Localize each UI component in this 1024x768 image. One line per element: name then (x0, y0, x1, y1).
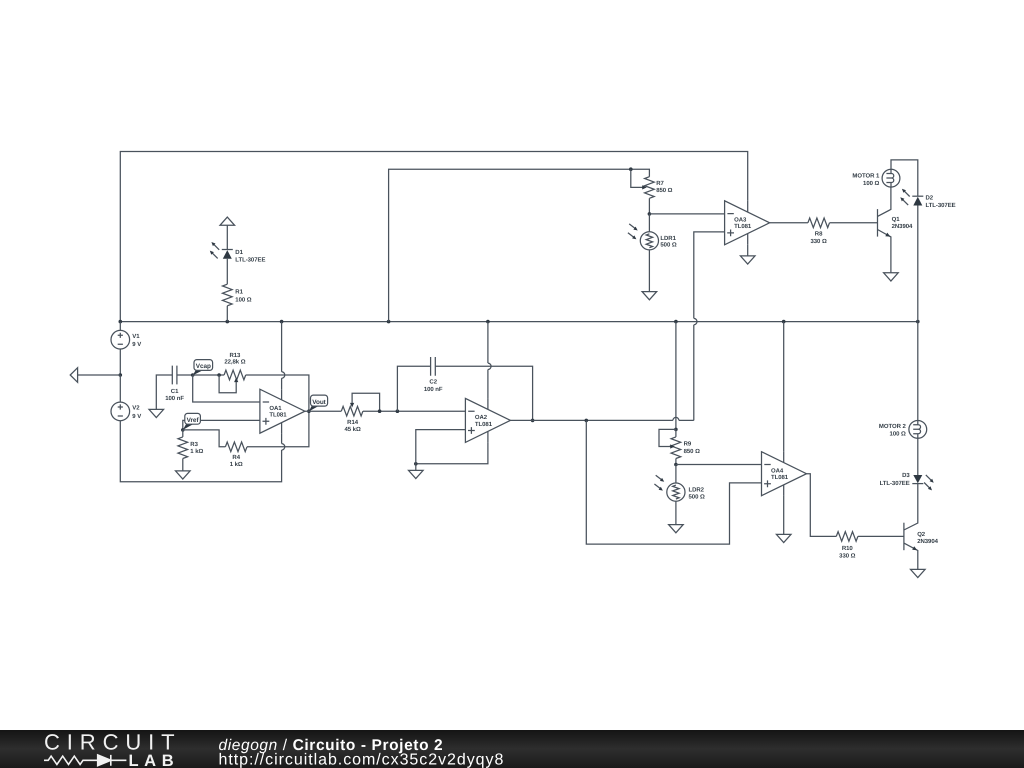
svg-text:OA4: OA4 (771, 467, 784, 474)
node junction dot Vcap (191, 373, 195, 377)
ground (rotated left) at supply midpoint (70, 368, 77, 383)
footer bar (0, 730, 1024, 768)
svg-text:LDR2: LDR2 (689, 487, 705, 494)
svg-text:OA2: OA2 (475, 414, 488, 421)
voltage source V1 9V (111, 322, 141, 375)
svg-text:C2: C2 (429, 378, 437, 385)
svg-text:330 Ω: 330 Ω (839, 552, 855, 559)
resistor R8 330 Ohm (808, 218, 830, 245)
svg-text:Vout: Vout (312, 399, 326, 406)
node junction dot OA1 output (307, 409, 311, 413)
ground below Q2 emitter (911, 569, 926, 577)
op-amp OA2 TL081 (465, 398, 510, 442)
logo resistor-diode glyph (44, 755, 126, 766)
LED D3 LTL-307EE (880, 472, 934, 490)
wire OA4 output to R10 (807, 474, 837, 537)
motor MOTOR 2 100 Ohm (879, 421, 927, 439)
wire LDR2 to ground (675, 501, 677, 524)
svg-text:R4: R4 (232, 454, 240, 461)
op-amp OA3 TL081 (725, 201, 770, 245)
node junction dot bus at R7 rail column (387, 320, 391, 324)
photoresistor LDR1 500 Ohm (628, 214, 677, 250)
svg-text:LTL-307EE: LTL-307EE (926, 202, 956, 209)
svg-text:500 Ω: 500 Ω (660, 241, 676, 248)
wire C1 left to ground (156, 375, 172, 409)
svg-text:V1: V1 (132, 333, 140, 340)
resistor R4 1k (225, 442, 247, 468)
svg-text:Vcap: Vcap (196, 363, 211, 370)
svg-text:http://circuitlab.com/cx35c2v2: http://circuitlab.com/cx35c2v2dyqy8 (219, 752, 505, 768)
svg-text:Q1: Q1 (892, 216, 901, 223)
svg-text:R10: R10 (842, 545, 854, 552)
svg-text:D1: D1 (235, 249, 243, 256)
wire OA4 + input loop to OA2 output (586, 420, 761, 544)
svg-text:R7: R7 (656, 180, 664, 187)
wire D1 to R1 (226, 259, 228, 284)
node junction dot OA4 + branch (585, 419, 589, 423)
flag Vcap (193, 360, 213, 376)
svg-text:2N3904: 2N3904 (892, 223, 913, 230)
wire OA4 V- to ground (783, 496, 785, 535)
wire V2 bottom to OA1 V- pin (with hop over R4 wire) (120, 421, 281, 482)
svg-text:OA3: OA3 (734, 217, 747, 224)
wire R7 bottom to divider node (648, 198, 650, 214)
ground below C1 (149, 409, 164, 417)
wire bus to OA2 V+ pin (with hop over C2 wire) (487, 322, 489, 364)
svg-text:R8: R8 (815, 231, 823, 238)
wire C2 right to OA2 output (435, 366, 532, 420)
svg-text:100 nF: 100 nF (424, 386, 443, 393)
capacitor C2 100nF (424, 357, 443, 393)
node junction dot bus at V1 column (119, 320, 123, 324)
wire OA2 ground node to non-inverting input (416, 430, 466, 464)
svg-text:OA1: OA1 (269, 405, 282, 412)
wire top +9V rail from V1 top to OA3 V+ pin (120, 152, 747, 322)
node junction dot R9 top (674, 428, 678, 432)
svg-text:TL081: TL081 (475, 421, 493, 428)
svg-text:R13: R13 (229, 352, 241, 359)
wire R1 to bus (226, 306, 228, 322)
LED D1 LTL-307EE (210, 242, 266, 264)
svg-text:LTL-307EE: LTL-307EE (880, 480, 910, 487)
wire motor1 top to D2 (891, 160, 918, 196)
svg-text:2N3904: 2N3904 (917, 538, 938, 545)
svg-text:LAB: LAB (129, 752, 180, 768)
potentiometer R14 45k (341, 393, 379, 433)
wire stub OA2 ground (415, 464, 417, 471)
wire ground to D1 cathode (226, 225, 228, 249)
svg-text:9 V: 9 V (132, 341, 141, 348)
svg-text:850 Ω: 850 Ω (656, 187, 672, 194)
node junction dot R13 left/wiper tie (217, 373, 221, 377)
node junction dot OA2 ground node (414, 462, 418, 466)
wire OA3 output to R8 (770, 222, 808, 224)
svg-text:45 kΩ: 45 kΩ (344, 426, 360, 433)
ground below LDR2 (669, 525, 684, 533)
svg-text:R14: R14 (347, 419, 359, 426)
svg-text:D3: D3 (902, 472, 910, 479)
svg-text:TL081: TL081 (269, 412, 287, 419)
node junction dot bus at OA2 V+ column (486, 320, 490, 324)
svg-text:330 Ω: 330 Ω (810, 238, 826, 245)
svg-text:R1: R1 (235, 289, 243, 296)
op-amp OA4 TL081 (762, 452, 807, 496)
node junction dot Vref (181, 428, 185, 432)
transistor Q1 2N3904 (878, 187, 914, 273)
svg-text:100 Ω: 100 Ω (863, 180, 879, 187)
wire divider node to OA3 inverting input (649, 213, 724, 215)
wire R4 right to OA1 output node (247, 411, 309, 447)
svg-text:R9: R9 (684, 441, 692, 448)
wire C2 branch riser (397, 366, 430, 411)
svg-text:MOTOR 2: MOTOR 2 (879, 423, 907, 430)
svg-text:LDR1: LDR1 (660, 235, 676, 242)
wire D2 to bus (917, 206, 919, 322)
node junction dot bus at R1 column (226, 320, 230, 324)
wire R7 rail from bus (389, 169, 650, 321)
svg-text:100 nF: 100 nF (165, 395, 184, 402)
wire R8 to Q1 base (830, 222, 878, 224)
svg-text:Vref: Vref (187, 417, 200, 424)
node junction dot LDR1 divider (648, 212, 652, 216)
svg-text:TL081: TL081 (734, 223, 752, 230)
svg-text:C1: C1 (171, 388, 179, 395)
svg-text:CIRCUIT: CIRCUIT (44, 729, 182, 754)
wire OA1 inverting input to Vcap node (193, 375, 260, 402)
wire OA2 V- to ground node (416, 442, 488, 463)
wire LDR1 to ground (648, 250, 650, 292)
node junction dot bus right end at D2/motor2 column (916, 320, 920, 324)
svg-text:1 kΩ: 1 kΩ (230, 461, 243, 468)
wire ground arrow to supply midpoint (78, 374, 121, 376)
ground below R3 (176, 471, 191, 479)
resistor R10 330 Ohm (836, 532, 858, 560)
op-amp OA1 TL081 (260, 389, 305, 433)
wire OA3 V- to ground (747, 245, 749, 256)
flag Vref (183, 413, 201, 430)
wire C1 right plate to Vcap node (177, 374, 193, 376)
wire OA1 output line to OA2 inverting input (305, 410, 466, 412)
ground below LDR1 (642, 292, 657, 300)
node junction dot C2/OA2 output (531, 419, 535, 423)
resistor R3 1k (178, 430, 203, 471)
node junction dot bus at R9 column (674, 320, 678, 324)
node junction dot V1/V2 midpoint (119, 373, 123, 377)
potentiometer R9 850 Ohm (659, 429, 700, 464)
svg-text:Q2: Q2 (917, 531, 926, 538)
wire OA1 non-inverting input to Vref node (183, 420, 260, 430)
svg-text:LTL-307EE: LTL-307EE (235, 257, 265, 264)
node junction dot bus at OA4 V+ column (782, 320, 786, 324)
node junction dot R14 wiper tie (378, 409, 382, 413)
wire bus to OA1 V+ pin (with hop over R13 wire) (281, 322, 283, 372)
ground (rotated up) above D1 (220, 217, 235, 225)
svg-text:1 kΩ: 1 kΩ (190, 448, 203, 455)
resistor R1 100 Ohm (223, 284, 252, 306)
wire R13 right to OA1 output node (246, 375, 309, 411)
LED D2 LTL-307EE (900, 189, 955, 209)
svg-text:100 Ω: 100 Ω (235, 296, 251, 303)
potentiometer R13 22,8k Ohm (219, 352, 246, 393)
svg-text:500 Ω: 500 Ω (689, 493, 705, 500)
svg-text:TL081: TL081 (771, 474, 789, 481)
flag Vout (309, 395, 328, 411)
svg-text:22,8k Ω: 22,8k Ω (224, 358, 245, 365)
svg-text:MOTOR 1: MOTOR 1 (852, 172, 880, 179)
potentiometer R7 850 Ohm (631, 169, 673, 198)
svg-text:9 V: 9 V (132, 413, 141, 420)
wire bus to motor2 (917, 322, 919, 421)
motor MOTOR 1 100 Ohm (852, 169, 899, 187)
wire OA3 + input riser (with hop over bus) (694, 232, 725, 319)
photoresistor LDR2 500 Ohm (654, 465, 705, 502)
ground below Q1 emitter (884, 273, 899, 281)
svg-text:R3: R3 (190, 441, 198, 448)
node junction dot bus at OA1 V+ column (280, 320, 284, 324)
wire motor2 to D3 (917, 438, 919, 475)
svg-text:850 Ω: 850 Ω (684, 448, 700, 455)
capacitor C1 100nF (165, 366, 184, 402)
svg-text:100 Ω: 100 Ω (890, 431, 906, 438)
voltage source V2 9V (111, 375, 141, 421)
wire bus to R9 (feed) (675, 322, 677, 430)
transistor Q2 2N3904 (904, 484, 939, 570)
node junction dot R7 wiper tie (629, 167, 633, 171)
node junction dot C2 branch (396, 409, 400, 413)
wire +9V horizontal bus (120, 321, 918, 323)
svg-text:D2: D2 (926, 194, 934, 201)
wire OA2 output line to OA3 + riser (with hop over R9 feed) (510, 419, 693, 421)
wire divider node to OA4 inverting input (676, 464, 762, 466)
svg-text:V2: V2 (132, 405, 140, 412)
wire Vcap node to R13 (193, 374, 224, 376)
node junction dot LDR2 divider (674, 463, 678, 467)
wire Vref node to R4 (183, 430, 226, 447)
wire bus to OA4 V+ pin (783, 322, 785, 452)
ground below OA2 node (409, 470, 424, 478)
ground below OA3 (740, 256, 755, 264)
ground below OA4 (776, 534, 791, 542)
wire R10 to Q2 base (858, 535, 904, 537)
